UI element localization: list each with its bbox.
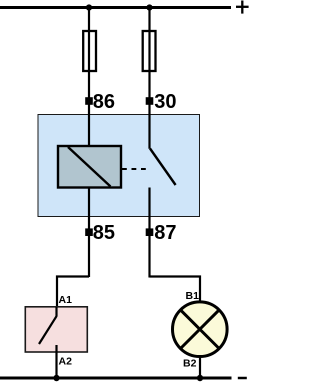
terminal square 87	[146, 228, 154, 236]
dashed actuator link	[122, 168, 146, 170]
svg-text:30: 30	[154, 91, 176, 113]
svg-text:B2: B2	[183, 358, 197, 370]
wire: lamp bottom to ground rail	[199, 356, 201, 378]
svg-text:B1: B1	[186, 290, 200, 302]
terminal square 85	[85, 228, 93, 236]
relay coil K1	[58, 146, 121, 188]
wire: switch bottom to terminal 87	[148, 188, 150, 278]
svg-text:A2: A2	[59, 356, 73, 368]
switch A blade	[39, 316, 57, 344]
fuse F1	[83, 31, 96, 71]
lamp cross stroke 2	[181, 310, 220, 349]
switch A upper contact	[55, 307, 57, 317]
terminal square 86	[85, 97, 93, 105]
plus terminal label	[236, 1, 249, 14]
node junction dot A2	[53, 375, 59, 381]
wire: 85 jog to switch A	[57, 277, 89, 308]
minus terminal label	[238, 377, 247, 380]
svg-text:85: 85	[93, 222, 115, 244]
coil diagonal stroke	[68, 147, 111, 187]
control switch box A	[25, 307, 87, 352]
switch A lower contact	[55, 345, 57, 378]
node junction dot B2	[197, 375, 203, 381]
fuse F2	[143, 31, 156, 71]
wire: rail to switch terminal 30	[148, 8, 150, 149]
relay switch contact blade	[150, 149, 176, 186]
svg-text:A1: A1	[59, 294, 73, 306]
wire: 87 jog to lamp B	[150, 277, 201, 303]
wire: coil bottom to terminal 85	[88, 188, 90, 278]
node junction dot right (fuse F2 tap)	[146, 4, 152, 10]
lamp B1 circle	[173, 302, 228, 357]
node junction dot left (fuse F1 tap)	[86, 4, 92, 10]
svg-text:86: 86	[93, 91, 115, 113]
terminal square 30	[146, 97, 154, 105]
wire: rail to coil terminal 86	[88, 8, 90, 147]
lamp cross stroke 1	[181, 310, 220, 349]
svg-text:87: 87	[154, 222, 176, 244]
ground return rail (bottom wire)	[0, 377, 232, 380]
relay body box	[38, 115, 200, 217]
battery + supply rail (top wire)	[0, 6, 231, 9]
